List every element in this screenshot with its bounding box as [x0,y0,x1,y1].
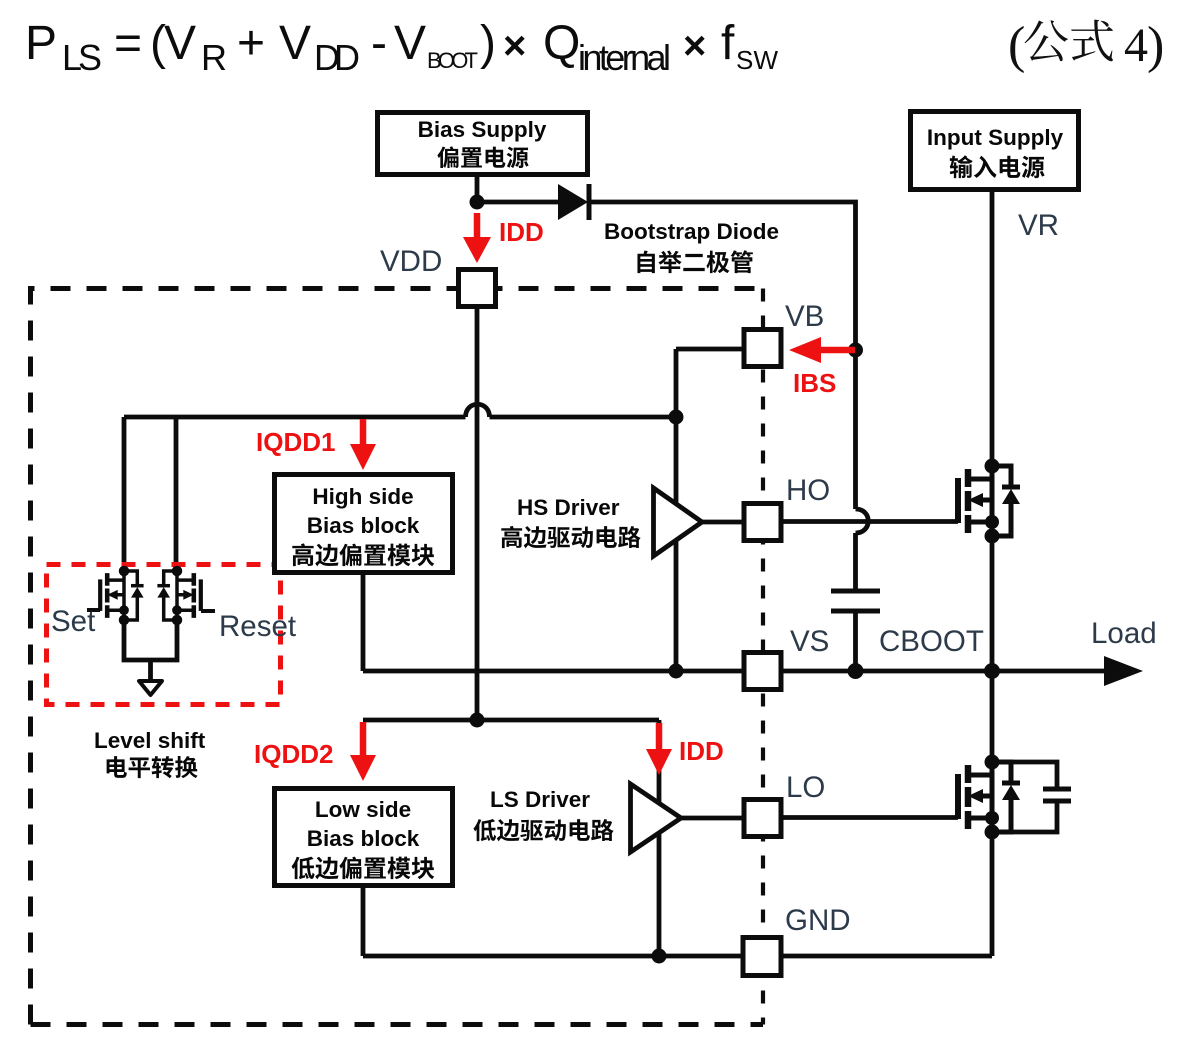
svg-text:Bias block: Bias block [307,826,420,851]
level shift red dashed box [47,565,281,705]
wire: bias supply to diode node [475,175,480,202]
svg-text:LO: LO [786,771,825,804]
svg-text:): ) [1147,17,1164,74]
node: rail/VB junction [669,410,684,425]
equation label (公式 4) [1008,17,1164,74]
pin VDD [459,270,496,307]
wire: low FET snubber cap branch [992,762,1057,832]
wire: low FET source to GND rail [990,832,995,956]
svg-text:IQDD2: IQDD2 [254,739,333,769]
svg-text:CBOOT: CBOOT [879,625,984,658]
red arrow IDD (LS driver) [656,723,663,751]
svg-text:Bias block: Bias block [307,513,420,538]
svg-text:VR: VR [1018,209,1059,242]
red arrow IBS [818,347,855,354]
svg-text:IDD: IDD [679,736,724,766]
wire: to VB pin [676,347,744,352]
svg-text:4: 4 [1124,19,1148,72]
red arrow IQDD1 [360,419,367,446]
wire: LO to gate [681,815,958,820]
wire: low side bias block to GND rail [361,888,366,956]
svg-text:HO: HO [786,474,830,507]
IC boundary dashed box [31,289,764,1025]
wire: VDD rail to LS driver [363,718,659,723]
box: Input Supply [911,112,1079,190]
svg-text:VDD: VDD [380,245,442,278]
wire: high FET source to VS rail [990,536,995,671]
svg-text:IQDD1: IQDD1 [256,427,335,457]
transistor Q4 Reset [157,566,200,626]
svg-text:IDD: IDD [499,217,544,247]
wire: Reset gate lead [201,609,215,613]
wire: set/reset sources to ground [124,620,177,679]
capacitor CBOOT [831,591,880,611]
svg-text:LS Driver: LS Driver [490,787,590,812]
wire: Set gate lead [87,608,100,612]
pin LO [744,800,781,837]
transistor Q1 high-side FET [958,459,1020,544]
wire: top-left rail with hop over VDD line [124,415,676,420]
pin VS [744,653,781,690]
wire: VR from input supply to high FET [990,192,995,466]
wire hop over HO line [856,509,869,533]
svg-text:Level shift: Level shift [94,728,206,753]
capacitor C_out [1043,789,1071,801]
pin boundary dashed line [761,289,765,1025]
svg-text:(: ( [1008,17,1025,74]
wire hop over VDD vertical [466,404,490,417]
pin GND [743,938,781,976]
node IBS junction [848,343,863,358]
wire: VB rail down through HS driver to VS [674,349,679,671]
transistor Q2 low-side FET [958,755,1020,840]
pin VB [744,330,781,367]
svg-text:HS Driver: HS Driver [517,495,620,520]
wire: VS rail down to low FET [990,671,995,762]
svg-text:VS: VS [790,625,829,658]
ground [139,681,162,695]
wire: LS driver column down to GND rail [657,720,662,956]
wire: diode row to right rail [477,202,856,509]
node: bias/IDD junction [470,195,485,210]
box: Low side Bias block [275,789,453,886]
svg-text:VB: VB [785,300,824,333]
box: Bias Supply [378,113,588,175]
Load arrowhead [1104,656,1143,686]
svg-text:Set: Set [51,605,95,638]
svg-text:Bootstrap Diode: Bootstrap Diode [604,219,779,244]
node: HS rail at VS [669,664,684,679]
formula P_LS = (V_R + V_DD - V_BOOT) x Q_internal x f_SW [25,17,778,78]
svg-text:Low side: Low side [315,797,411,822]
svg-text:High side: High side [312,484,413,509]
wire: GND rail [363,954,992,959]
svg-text:GND: GND [785,904,851,937]
red arrow IDD (top) [474,213,481,240]
LS driver buffer U2 [631,784,682,852]
node: VDD/low rail junction [470,713,485,728]
box: High side Bias block [275,475,453,573]
svg-text:Reset: Reset [219,610,296,643]
transistor Q3 Set [100,566,143,626]
bootstrap diode D1 [558,184,588,220]
wire: down to CBOOT and VS [853,533,858,671]
wire: high side bias block to VS rail [361,575,366,671]
wire: VDD pin down to low rail [475,308,480,720]
red arrow IQDD2 [360,722,367,757]
HS driver buffer U1 [654,488,703,556]
node: VS/FET junction [984,663,1000,679]
node: LS column at GND rail [652,949,667,964]
node: VS/CBOOT junction [848,663,864,679]
wire: left rail drops to level shift [124,417,176,571]
svg-text:IBS: IBS [793,368,836,398]
pin HO [744,504,781,541]
svg-text:Load: Load [1091,617,1157,650]
wire: HO to gate [702,519,958,524]
svg-text:Input Supply: Input Supply [927,125,1064,150]
wire: VS rail [363,669,1106,674]
svg-text:Bias Supply: Bias Supply [418,117,547,142]
